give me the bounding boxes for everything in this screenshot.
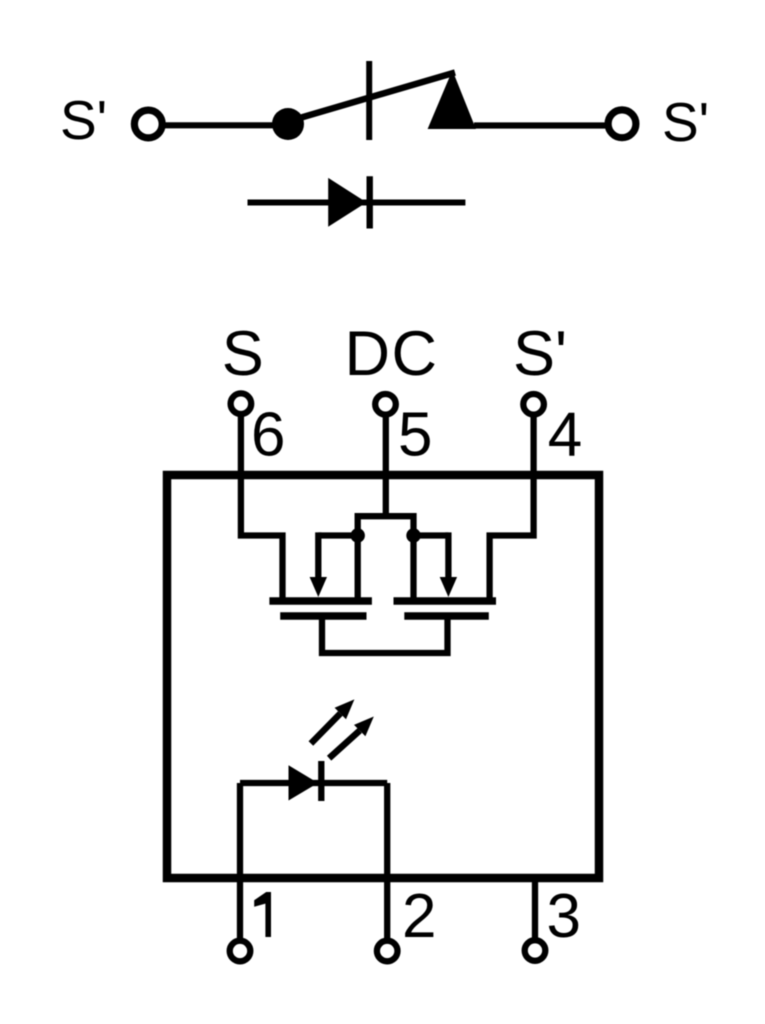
Q2 gate bar [404, 612, 489, 620]
Q2 body arm wire [414, 532, 449, 538]
wire contact to right terminal [474, 122, 606, 128]
switch pivot dot [272, 108, 304, 140]
svg-text:6: 6 [251, 401, 285, 470]
LED anode wire [240, 780, 387, 786]
pin 2 terminal [377, 941, 398, 962]
terminal S' right [608, 110, 636, 138]
pin 6 terminal [231, 393, 252, 414]
switch actuator slash [366, 61, 372, 140]
svg-text:5: 5 [398, 401, 432, 470]
LED cathode bar [318, 761, 324, 801]
svg-text:3: 3 [547, 882, 581, 951]
Q1 body arm wire [318, 532, 357, 538]
Q1 body arrow shaft [315, 532, 321, 581]
wire gate tie bar [358, 516, 414, 535]
svg-text:DC: DC [345, 319, 439, 389]
light arrow 1 head [335, 699, 355, 719]
junction dot right [406, 528, 420, 542]
pin number 1 [254, 892, 271, 937]
diode D1 triangle [328, 178, 366, 227]
light arrow 1 shaft [311, 714, 340, 744]
light arrow 2 head [354, 717, 374, 737]
pin 4 lead wire [530, 413, 536, 479]
svg-text:S': S' [60, 89, 107, 151]
svg-text:4: 4 [548, 401, 582, 470]
wire LED anode to pin 1 [237, 783, 243, 939]
wire pin 4 to Q2 source [490, 475, 534, 600]
Q1 gate bar [280, 612, 366, 620]
wire LED cathode to pin 2 [384, 783, 390, 939]
Q2 body arrow head [440, 577, 457, 597]
Q2 body arrow shaft [445, 532, 451, 581]
pin 6 lead wire [238, 413, 244, 479]
pin 3 stub wire [532, 878, 538, 939]
Q1 body arrow head [310, 577, 327, 597]
terminal S' left [134, 110, 162, 138]
pin 4 terminal [523, 394, 544, 415]
junction dot left [351, 528, 365, 542]
Q1 drain wire [355, 536, 361, 600]
diode D1 cathode bar [367, 176, 373, 228]
svg-text:S': S' [513, 319, 567, 389]
package outline box [167, 475, 599, 878]
switch contact triangle [428, 70, 476, 129]
Q2 channel plate [394, 597, 497, 605]
svg-text:S: S [222, 319, 264, 389]
LED triangle [289, 765, 319, 800]
wire left terminal to pivot [165, 122, 288, 128]
wire pin 6 to Q1 source [241, 475, 283, 600]
diode D1 anode wire [248, 200, 466, 206]
pin 5 lead wire [383, 413, 389, 519]
Q1 channel plate [269, 597, 372, 605]
wire gate common U [322, 619, 448, 653]
Q2 drain wire [410, 536, 416, 600]
pin 1 terminal [230, 941, 251, 962]
svg-text:S': S' [662, 91, 709, 153]
pin 3 terminal [525, 940, 546, 961]
svg-text:2: 2 [402, 882, 436, 951]
switch lever arm [286, 73, 455, 123]
light arrow 2 shaft [329, 731, 360, 759]
pin 5 terminal [375, 394, 396, 415]
